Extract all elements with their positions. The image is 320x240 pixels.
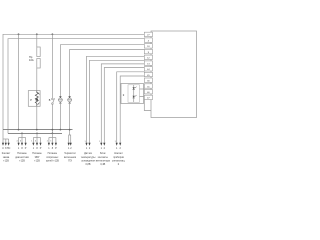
arrow G2c	[25, 143, 27, 146]
arrow G1b	[5, 143, 7, 146]
arrow G8a	[100, 143, 102, 146]
svg-text:Р: Р	[40, 147, 42, 150]
label block B3	[32, 152, 42, 162]
label block B4	[46, 152, 59, 162]
svg-text:цепей +12В: цепей +12В	[46, 160, 59, 163]
svg-text:Р: Р	[55, 147, 57, 150]
svg-text:1: 1	[116, 147, 118, 150]
svg-text:замка: замка	[3, 156, 10, 159]
svg-text:ПЭ: ПЭ	[68, 160, 72, 163]
svg-text:Р: Р	[30, 99, 32, 102]
label block B6	[64, 152, 77, 162]
bus1 junction dots	[18, 129, 71, 131]
bus2 junction dots	[21, 133, 53, 135]
indicator block A1 inner frame	[128, 85, 140, 103]
arrow G3c	[39, 143, 41, 146]
wire pairB left (pin7)	[101, 64, 144, 143]
indicator block A1 box	[121, 84, 144, 104]
svg-text:1: 1	[48, 147, 50, 150]
svg-text:В: В	[49, 99, 51, 102]
terminal group G4 bracket	[49, 137, 56, 139]
wire W-fuse to relay	[36, 68, 38, 91]
svg-text:+12В: +12В	[19, 160, 25, 163]
terminal id labels	[2, 147, 121, 150]
svg-text:К: К	[123, 93, 125, 97]
terminal group G3 feed	[36, 133, 38, 137]
relay K1 coil zigzag	[35, 91, 38, 107]
svg-text:U: U	[2, 147, 4, 150]
svg-text:ЭБУ: ЭБУ	[35, 156, 40, 159]
terminal group G2 stubs	[18, 138, 20, 144]
label block B9	[112, 152, 126, 166]
svg-text:4: 4	[16, 141, 18, 143]
terminal group G3 stubs	[32, 138, 34, 144]
terminal group G6 fork	[69, 135, 71, 143]
wire W-18 vertical	[18, 34, 20, 129]
wire rail1 (+12V top rail)	[3, 34, 145, 139]
wire pairA left (pin5)	[87, 56, 145, 143]
svg-text:Датчик: Датчик	[84, 152, 93, 155]
wire pairC left (pin9)	[117, 72, 145, 143]
indicator lamp D2	[133, 96, 135, 98]
arrow G2b	[21, 143, 23, 146]
fuse F1 lower element	[37, 59, 40, 69]
svg-text:10А: 10А	[29, 58, 34, 62]
svg-text:5: 5	[50, 141, 52, 143]
arrow G7a	[85, 143, 87, 146]
arrow G6a	[68, 143, 70, 146]
svg-text:диагностики: диагностики	[15, 156, 29, 159]
svg-text:сигнализац.: сигнализац.	[112, 160, 126, 163]
arrow G4a	[48, 143, 50, 146]
terminal arrows row	[2, 143, 121, 146]
node J1 on rail1	[18, 33, 20, 35]
arrow G8b	[103, 143, 105, 146]
wire pairA right (pin6)	[90, 60, 145, 143]
svg-text:+12В: +12В	[3, 160, 9, 163]
svg-text:К: К	[118, 163, 120, 166]
motor M2 arrows	[68, 96, 71, 98]
svg-text:Блок: Блок	[100, 152, 106, 155]
svg-text:2: 2	[89, 147, 91, 150]
svg-text:8: 8	[52, 147, 54, 150]
bus1 ground bus	[3, 129, 73, 131]
wire W-switch upper	[51, 34, 53, 98]
svg-text:3: 3	[35, 141, 37, 143]
svg-text:8: 8	[21, 147, 23, 150]
wire A1 out top (pin11)	[140, 88, 145, 90]
svg-text:0,8В: 0,8В	[86, 163, 91, 166]
svg-text:Термостат: Термостат	[64, 152, 76, 155]
wire relay to bus1	[36, 106, 38, 129]
wire W-circle1 (to pin3)	[60, 45, 144, 98]
svg-text:1: 1	[86, 147, 88, 150]
arrow G9b	[119, 143, 121, 146]
svg-text:0,4В: 0,4В	[100, 163, 105, 166]
wire pairC right (pin10)	[120, 76, 144, 143]
wire W-circle2 (to pin4)	[70, 50, 145, 99]
label block B8	[96, 152, 111, 166]
wire circle2 to bus1	[69, 102, 71, 131]
svg-text:2: 2	[104, 147, 106, 150]
svg-text:вентилятора: вентилятора	[96, 160, 111, 163]
wire A1 out bottom (pin12) stepped	[140, 97, 152, 111]
switch S1	[52, 98, 54, 100]
svg-text:температуры: температуры	[81, 156, 96, 159]
svg-text:Питание: Питание	[17, 152, 27, 155]
label block B2	[15, 152, 29, 162]
motor M1 circle	[59, 98, 63, 102]
svg-text:6: 6	[20, 141, 22, 143]
indicator block A1 internal wire	[133, 85, 135, 102]
svg-text:1: 1	[33, 147, 35, 150]
svg-text:Контакт: Контакт	[114, 152, 124, 155]
wire W-switch lower	[51, 104, 53, 133]
svg-text:включения: включения	[64, 156, 77, 159]
svg-text:контакты: контакты	[98, 156, 108, 159]
arrow G7b	[88, 143, 90, 146]
label block B7	[81, 152, 96, 166]
svg-text:ПС: ПС	[7, 147, 11, 150]
terminal group G2 bracket	[19, 137, 26, 139]
node J2 on rail1	[36, 33, 38, 35]
terminal group G3 bracket	[33, 137, 40, 139]
svg-text:охлаждения: охлаждения	[81, 160, 95, 163]
terminal group G1 stubs	[2, 139, 4, 143]
relay K1 marks	[36, 98, 39, 101]
wire W-fuse vertical upper	[36, 34, 38, 47]
terminal stub side ticks	[16, 141, 116, 144]
ECU U1 box	[151, 31, 197, 118]
motor M2 circle	[68, 98, 72, 102]
svg-text:+12В: +12В	[34, 160, 40, 163]
fuse F1 upper element	[37, 47, 40, 57]
arrow G1a	[2, 143, 4, 146]
svg-text:вторичных: вторичных	[47, 156, 60, 159]
svg-text:2: 2	[70, 147, 72, 150]
relay K1 box	[28, 91, 40, 107]
node J3 on rail1	[52, 33, 54, 35]
connector X1 pin numbers	[147, 35, 150, 100]
terminal group G4 stubs	[48, 138, 50, 144]
arrow G4c	[55, 143, 57, 146]
motor M1 arrows	[59, 96, 62, 98]
svg-text:приборов: приборов	[113, 156, 124, 159]
arrow G3a	[32, 143, 34, 146]
svg-text:8: 8	[36, 147, 38, 150]
svg-text:Контакт: Контакт	[2, 152, 12, 155]
wire circle1 to bus1	[59, 102, 61, 130]
svg-text:Р: Р	[25, 147, 27, 150]
bus2	[8, 132, 62, 134]
terminal group G1 bracket	[3, 138, 9, 140]
svg-text:Питание: Питание	[48, 152, 58, 155]
svg-text:Питание: Питание	[32, 152, 42, 155]
wire pairB right (pin8)	[104, 68, 144, 144]
connector X1 pin boxes	[144, 32, 152, 99]
terminal group G4 feed	[51, 133, 53, 137]
svg-text:1: 1	[31, 141, 33, 143]
svg-text:2: 2	[120, 147, 122, 150]
arrow G2a	[18, 143, 20, 146]
arrow G6b	[70, 143, 72, 146]
label block B1	[2, 152, 12, 162]
arrow G4b	[51, 143, 53, 146]
arrow G3b	[36, 143, 38, 146]
arrow G9a	[116, 143, 118, 146]
terminal group G2 feed	[21, 133, 23, 137]
wire rail2	[8, 39, 145, 134]
svg-text:2: 2	[47, 141, 49, 143]
svg-text:1: 1	[101, 147, 103, 150]
arrow G1c	[8, 143, 10, 146]
indicator lamp D1	[133, 87, 135, 89]
svg-text:1: 1	[18, 147, 20, 150]
